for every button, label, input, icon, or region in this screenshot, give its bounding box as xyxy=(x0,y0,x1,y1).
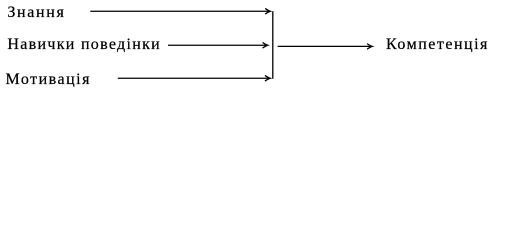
label Навички поведінки xyxy=(7,36,161,54)
junction vertical line (collector bar) xyxy=(272,11,274,79)
wire arrow from Мотивація to junction line xyxy=(118,75,270,81)
wire arrow from Навички поведінки to junction line xyxy=(168,42,268,48)
wire arrow from junction line to Компетенція xyxy=(278,44,373,50)
label Компетенція xyxy=(386,36,489,54)
label Знання xyxy=(7,4,65,22)
wire arrow from Знання to junction line xyxy=(90,8,270,14)
label Мотивація xyxy=(6,71,91,89)
